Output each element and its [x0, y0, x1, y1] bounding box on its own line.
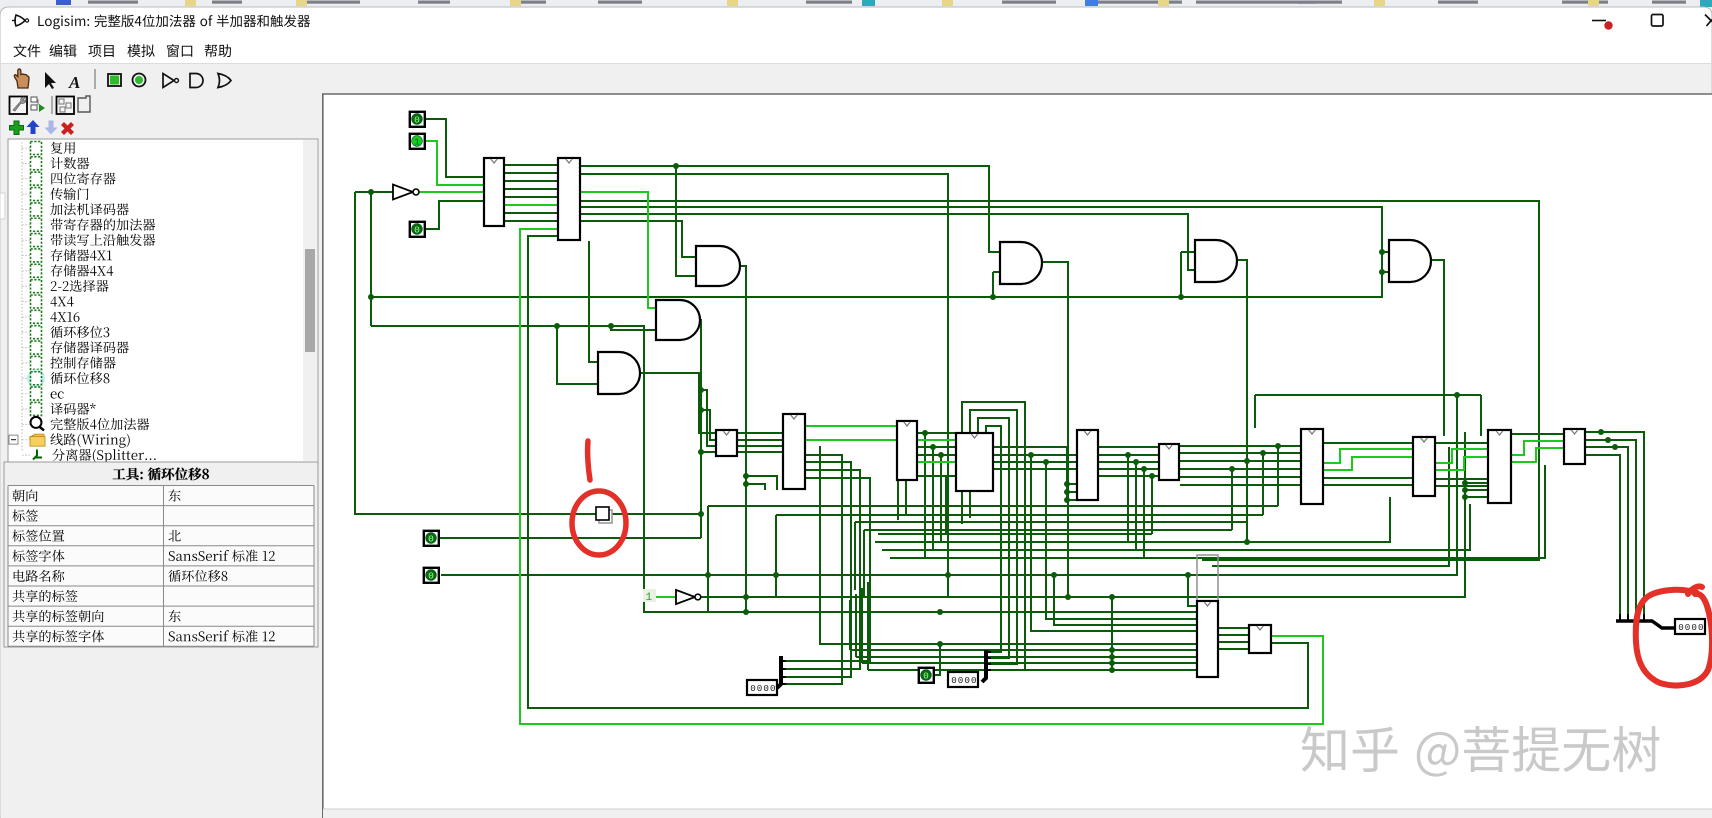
svg-text:0: 0	[428, 533, 434, 544]
svg-text:1: 1	[646, 592, 653, 604]
svg-text:0: 0	[923, 670, 929, 681]
svg-text:0000: 0000	[750, 683, 776, 694]
svg-text:0: 0	[414, 114, 420, 125]
svg-text:0000: 0000	[1678, 622, 1704, 633]
svg-text:0000: 0000	[951, 675, 977, 686]
svg-text:0: 0	[414, 224, 420, 235]
svg-text:0: 0	[428, 570, 434, 581]
svg-text:1: 1	[414, 136, 420, 147]
svg-text:A: A	[68, 73, 80, 92]
